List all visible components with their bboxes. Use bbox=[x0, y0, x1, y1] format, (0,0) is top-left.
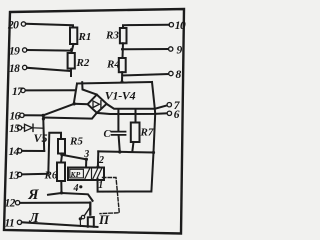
junction dot bus at C/R7 bottom bbox=[152, 151, 155, 154]
terminal 19 bbox=[9, 46, 27, 58]
terminal 15 bbox=[9, 123, 22, 135]
contact pivot circle bbox=[81, 215, 84, 218]
wire R6 bottom to node4 line bbox=[60, 181, 62, 192]
border frame bbox=[4, 9, 184, 234]
svg-text:V5: V5 bbox=[34, 131, 48, 145]
svg-text:2: 2 bbox=[98, 155, 104, 166]
wire R5 bottom to node3 and down to R6 bbox=[61, 154, 86, 163]
svg-text:8: 8 bbox=[176, 69, 182, 81]
svg-text:V1-V4: V1-V4 bbox=[105, 89, 136, 103]
KP regulator box bbox=[68, 168, 104, 181]
svg-text:13: 13 bbox=[9, 170, 20, 182]
terminal 9 bbox=[169, 45, 183, 57]
svg-text:12: 12 bbox=[5, 198, 16, 210]
resistor R1 bbox=[70, 28, 91, 45]
wire bridge left vertex to node bbox=[74, 103, 87, 105]
right bus wire from rail down and around to node1 bbox=[98, 82, 156, 192]
resistor R5 bbox=[58, 136, 83, 154]
svg-text:6: 6 bbox=[174, 109, 180, 121]
dashed mechanical link bbox=[100, 178, 119, 214]
junction dot C bottom bbox=[118, 150, 121, 153]
terminal 10 bbox=[169, 20, 186, 32]
svg-text:R6: R6 bbox=[44, 170, 58, 182]
vertical wire pin16 node down to pin14 corner bbox=[43, 115, 44, 151]
junction dot bridge left node bbox=[73, 102, 76, 105]
terminal 20 bbox=[7, 20, 26, 32]
terminal 12 bbox=[5, 198, 20, 210]
wire terminal12 to contact bbox=[20, 202, 90, 204]
wire rail to bridge top vertex bbox=[82, 82, 96, 94]
junction dot node2 at box bbox=[96, 165, 99, 168]
top rail wire bbox=[77, 82, 152, 84]
junction dot R4 bottom at rail bbox=[121, 80, 124, 83]
diode bridge V1-V4 bbox=[88, 89, 136, 113]
junction dot R3-R4 bbox=[121, 48, 124, 51]
svg-text:C: C bbox=[104, 129, 112, 140]
wire terminal11 bbox=[22, 222, 98, 227]
diode V5 bbox=[22, 124, 48, 145]
pivot lead down to wire 11 bbox=[79, 220, 81, 227]
wire R1 bottom to R2 top bbox=[71, 44, 73, 53]
terminal 6 bbox=[167, 109, 180, 121]
svg-text:R5: R5 bbox=[69, 136, 83, 148]
bottom wire of C and R7 bbox=[98, 151, 153, 152]
wire R3 bottom to R4 top and pin9 bbox=[122, 43, 168, 58]
svg-text:14: 14 bbox=[9, 146, 20, 158]
terminal 14 bbox=[9, 146, 22, 158]
svg-text:4: 4 bbox=[73, 183, 79, 194]
wire terminal17 bbox=[25, 89, 75, 91]
svg-text:9: 9 bbox=[177, 45, 183, 57]
contact arm bbox=[84, 208, 90, 216]
svg-text:16: 16 bbox=[10, 111, 21, 123]
contact fixed bar bbox=[89, 203, 91, 215]
junction dot at lower rail crossing bbox=[42, 117, 45, 120]
svg-text:10: 10 bbox=[175, 20, 186, 32]
terminal 11 bbox=[5, 217, 22, 229]
wire node to pin16 junction bbox=[43, 104, 74, 116]
resistor R3 bbox=[105, 28, 127, 43]
svg-text:R2: R2 bbox=[76, 57, 90, 69]
junction dot node4 bbox=[79, 185, 82, 188]
svg-text:18: 18 bbox=[9, 63, 20, 75]
resistor R2 bbox=[68, 53, 90, 69]
wire terminal14 to vertical bbox=[22, 150, 44, 152]
terminal 16 bbox=[10, 111, 25, 123]
terminal 8 bbox=[169, 69, 182, 81]
svg-text:R7: R7 bbox=[140, 127, 154, 139]
wire rail left corner down to bridge left node bbox=[74, 84, 77, 104]
resistor R6 bbox=[44, 163, 66, 182]
lower rail wire to bridge bottom vertex bbox=[43, 113, 96, 119]
terminal 7 bbox=[167, 100, 181, 112]
wire terminal16 bbox=[24, 114, 43, 116]
svg-text:R1: R1 bbox=[78, 31, 92, 43]
svg-text:11: 11 bbox=[5, 217, 15, 229]
junction dot pin16 node bbox=[42, 114, 45, 117]
svg-text:КР: КР bbox=[70, 170, 81, 179]
terminal 18 bbox=[9, 63, 27, 75]
svg-text:19: 19 bbox=[9, 46, 20, 58]
svg-text:15: 15 bbox=[9, 123, 20, 135]
junction dot R1-R2 bbox=[70, 48, 73, 51]
wire pin7 from bridge right vertex bbox=[107, 104, 168, 109]
capacitor C bbox=[104, 110, 126, 152]
svg-text:Я: Я bbox=[27, 187, 39, 203]
junction dot at pivot lead bbox=[79, 217, 82, 220]
wire R4 bottom to pin8 and down to top rail bbox=[122, 72, 168, 82]
wire node3 down to KP box bbox=[85, 159, 87, 167]
wire terminal13 riser to R5 top bbox=[22, 133, 61, 175]
wire down to node2 bbox=[97, 151, 99, 166]
wire pin6 from bridge bottom vertex bbox=[97, 113, 168, 114]
wire pin20 to R1 top bbox=[26, 24, 73, 28]
svg-text:R4: R4 bbox=[106, 59, 120, 71]
wire pin18 to R2 bottom bbox=[27, 68, 71, 76]
wire R3 top to pin10 bbox=[123, 25, 169, 28]
wire pin19 to R1/R2 junction bbox=[27, 49, 71, 52]
junction dot R6 at node4 wire bbox=[60, 191, 63, 194]
fixed contact bracket bbox=[88, 217, 94, 227]
svg-text:1: 1 bbox=[98, 180, 103, 191]
junction dot below R5 bbox=[60, 153, 63, 156]
junction dot node 3 bbox=[85, 158, 88, 161]
resistor R7 bbox=[131, 109, 154, 152]
terminal 17 bbox=[12, 86, 25, 98]
terminal 13 bbox=[9, 170, 22, 182]
node 4 wire bbox=[48, 193, 93, 201]
resistor R4 bbox=[106, 58, 126, 72]
svg-text:R3: R3 bbox=[105, 30, 119, 42]
svg-text:20: 20 bbox=[7, 20, 19, 32]
